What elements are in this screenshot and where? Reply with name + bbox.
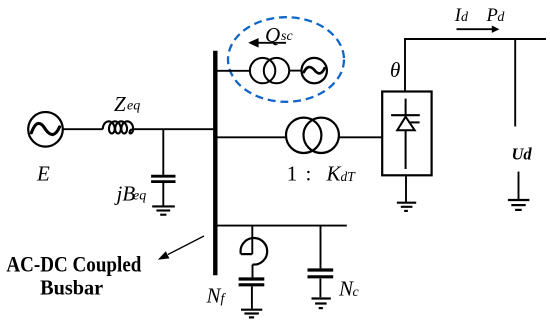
svg-text:sc: sc (281, 29, 293, 44)
svg-text:Busbar: Busbar (40, 275, 103, 299)
svg-text:Ud: Ud (512, 145, 533, 164)
svg-text:Z: Z (114, 92, 126, 116)
svg-text:dT: dT (341, 169, 357, 184)
svg-text:c: c (353, 285, 360, 300)
svg-text::: : (306, 161, 312, 185)
svg-text:Q: Q (265, 23, 280, 47)
svg-text:N: N (206, 284, 222, 308)
svg-text:eq: eq (133, 189, 146, 204)
svg-text:K: K (326, 161, 342, 185)
svg-text:θ: θ (390, 58, 400, 82)
svg-text:1: 1 (287, 161, 298, 185)
svg-text:d: d (497, 10, 505, 25)
svg-text:P: P (486, 6, 498, 26)
svg-text:AC-DC Coupled: AC-DC Coupled (6, 253, 141, 277)
svg-text:eq: eq (127, 98, 140, 113)
svg-text:d: d (461, 10, 469, 25)
svg-text:E: E (36, 162, 50, 186)
